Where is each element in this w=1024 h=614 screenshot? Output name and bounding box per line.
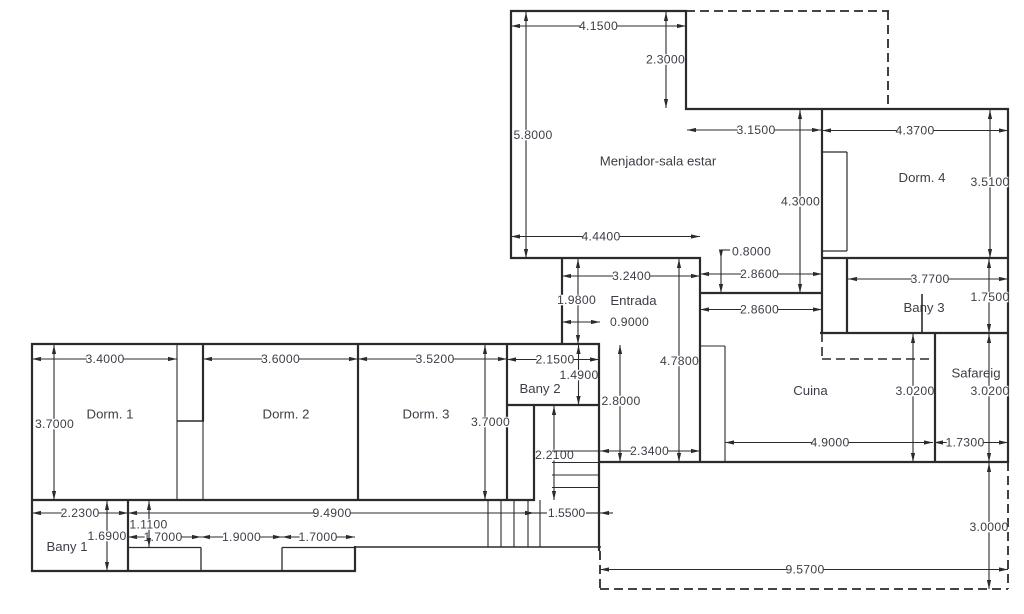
stair riser 3 — [513, 500, 515, 547]
svg-text:3.5200: 3.5200 — [415, 352, 454, 366]
dimension 3.1500 horizontal — [687, 123, 821, 137]
stair tread 3 — [552, 474, 598, 476]
dimension 4.7800 vertical — [660, 259, 699, 462]
wall corridor east — [699, 257, 701, 463]
stair tread 1 — [552, 450, 598, 452]
svg-text:2.2300: 2.2300 — [60, 506, 99, 520]
dimension 4.1500 horizontal — [511, 19, 686, 33]
dimension 1.5500 horizontal — [521, 506, 613, 520]
stair riser 5 — [539, 500, 541, 547]
svg-text:Entrada: Entrada — [610, 293, 657, 308]
dimension 2.3400 horizontal — [600, 444, 700, 458]
wall bany3 west — [846, 257, 848, 334]
terrace top edge west segment — [128, 547, 201, 549]
closet dorm1/dorm2 bottom — [177, 420, 204, 422]
wall dorm4 west — [821, 108, 823, 334]
svg-text:3.2400: 3.2400 — [612, 269, 651, 283]
svg-text:4.9000: 4.9000 — [810, 436, 849, 450]
terrace top edge east segment — [282, 547, 355, 549]
stair tread 2 — [552, 462, 598, 464]
dimension 4.3700 horizontal — [822, 124, 1008, 138]
wall kitchen north — [699, 292, 823, 294]
svg-text:Safareig: Safareig — [951, 366, 1000, 381]
svg-text:3.0200: 3.0200 — [895, 384, 934, 398]
svg-text:0.8000: 0.8000 — [732, 244, 771, 258]
wall bedroom row top — [31, 343, 600, 345]
svg-text:Bany 1: Bany 1 — [46, 539, 87, 554]
svg-text:2.8000: 2.8000 — [601, 394, 640, 408]
svg-text:3.6000: 3.6000 — [261, 352, 300, 366]
dimension 1.7000 horizontal — [128, 530, 201, 544]
door line in bany 3 — [921, 294, 923, 333]
wall dorm4 south — [821, 257, 1009, 259]
svg-text:1.7500: 1.7500 — [970, 290, 1009, 304]
closet dorm4 top — [823, 151, 847, 153]
wall east of stair block — [598, 343, 600, 551]
svg-text:3.7700: 3.7700 — [910, 272, 949, 286]
dashed terrace top — [686, 10, 889, 12]
svg-text:3.7000: 3.7000 — [471, 415, 510, 429]
wall living room top — [510, 10, 687, 12]
terrace pillar west side — [200, 548, 202, 572]
dimension 2.3000 vertical — [646, 12, 685, 108]
dimension 3.7000 vertical — [35, 345, 74, 500]
terrace pillar east side — [281, 548, 283, 572]
wall safareig west — [934, 332, 936, 463]
dimension 9.5700 horizontal — [600, 563, 1008, 577]
wall living room bottom / entrance top — [510, 257, 701, 259]
dimension 1.7300 horizontal — [934, 436, 1008, 450]
wall bottom outer — [31, 570, 356, 572]
svg-text:2.2100: 2.2100 — [535, 448, 574, 462]
dimension 3.0200 vertical — [895, 334, 934, 462]
dimension 0.9000 horizontal — [562, 315, 649, 329]
wall bany3 south / safareig north — [820, 332, 1009, 334]
svg-text:4.3700: 4.3700 — [895, 124, 934, 138]
svg-text:2.3000: 2.3000 — [646, 53, 685, 67]
closet dorm1/dorm2 east lower line — [202, 421, 204, 500]
svg-text:4.3000: 4.3000 — [781, 195, 820, 209]
dimension 3.6000 horizontal — [203, 352, 358, 366]
wall step at terrace east — [354, 546, 356, 572]
dimension 4.9000 horizontal — [725, 436, 933, 450]
svg-text:4.4400: 4.4400 — [581, 230, 620, 244]
dimension 3.5100 vertical — [970, 110, 1009, 258]
dimension 3.7700 horizontal — [848, 272, 1008, 286]
svg-text:3.7000: 3.7000 — [35, 417, 74, 431]
svg-text:1.4900: 1.4900 — [559, 368, 598, 382]
svg-text:Dorm. 1: Dorm. 1 — [87, 407, 134, 422]
dimension 2.2100 vertical — [535, 406, 574, 500]
dimension 3.4000 horizontal — [32, 352, 177, 366]
kitchen niche east — [724, 346, 726, 461]
svg-text:0.9000: 0.9000 — [610, 315, 649, 329]
dashed bottom edge — [600, 588, 1008, 590]
svg-text:3.0200: 3.0200 — [970, 384, 1009, 398]
svg-text:Dorm. 3: Dorm. 3 — [403, 407, 450, 422]
dimension 3.0000 vertical — [969, 463, 1008, 589]
dimension 2.8600 horizontal — [700, 303, 822, 317]
dimension 1.7000 horizontal — [282, 530, 355, 544]
wall bany2 south — [506, 404, 600, 406]
svg-text:3.0000: 3.0000 — [969, 520, 1008, 534]
dimension 2.1500 horizontal — [507, 353, 599, 367]
wall left outer — [31, 343, 33, 572]
svg-text:3.4000: 3.4000 — [85, 352, 124, 366]
dimension 1.1100 vertical — [129, 501, 167, 547]
dimension 1.9800 vertical — [557, 259, 596, 344]
svg-text:Dorm. 4: Dorm. 4 — [899, 170, 946, 185]
svg-text:4.7800: 4.7800 — [660, 354, 699, 368]
kitchen niche top — [701, 345, 725, 347]
svg-text:1.7300: 1.7300 — [945, 436, 984, 450]
svg-text:2.1500: 2.1500 — [535, 353, 574, 367]
svg-text:Bany 2: Bany 2 — [519, 381, 560, 396]
dimension 2.8000 vertical — [601, 345, 640, 462]
dimension 2.8600 horizontal — [700, 267, 822, 281]
stair riser 2 — [500, 500, 502, 547]
svg-text:1.5500: 1.5500 — [548, 506, 585, 520]
dashed kitchen open edge — [822, 358, 935, 360]
svg-text:2.8600: 2.8600 — [740, 303, 779, 317]
wall dorm3 / bany2 west — [506, 343, 508, 501]
dimension 0.8000 vertical — [719, 244, 771, 293]
svg-text:4.1500: 4.1500 — [579, 19, 618, 33]
svg-text:9.5700: 9.5700 — [785, 563, 824, 577]
wall closet dorm1 east upper — [202, 343, 204, 421]
dimension 3.2400 horizontal — [562, 269, 700, 283]
wall right outer — [1007, 108, 1009, 463]
stair riser 4 — [527, 500, 529, 547]
svg-text:1.1100: 1.1100 — [129, 518, 167, 532]
wall south of kitchen block — [599, 461, 1009, 463]
svg-text:1.9800: 1.9800 — [557, 293, 596, 307]
dimension 1.4900 vertical — [559, 345, 598, 405]
dimension 9.4900 horizontal — [128, 506, 534, 520]
wall living room left — [510, 10, 512, 259]
dimension 4.3000 vertical — [781, 110, 820, 293]
svg-text:1.6900: 1.6900 — [87, 529, 126, 543]
svg-text:1.7000: 1.7000 — [298, 530, 337, 544]
closet dorm1/dorm2 west line — [176, 344, 178, 500]
dimension 3.0200 vertical — [970, 334, 1009, 462]
svg-text:Bany 3: Bany 3 — [903, 300, 944, 315]
dimension 1.6900 vertical — [87, 501, 126, 571]
wall entrance west — [561, 257, 563, 345]
svg-text:1.9000: 1.9000 — [222, 530, 261, 544]
dimension 1.7500 vertical — [970, 259, 1009, 333]
stair riser 1 — [487, 500, 489, 547]
svg-text:Dorm. 2: Dorm. 2 — [263, 407, 310, 422]
dimension 3.5200 horizontal — [358, 352, 507, 366]
svg-text:3.1500: 3.1500 — [736, 123, 775, 137]
svg-text:9.4900: 9.4900 — [312, 506, 351, 520]
dashed terrace east — [887, 11, 889, 109]
dimension 5.8000 vertical — [513, 12, 552, 258]
dashed short below bany3 west — [821, 333, 823, 359]
closet dorm4 east — [846, 152, 848, 251]
svg-text:5.8000: 5.8000 — [513, 128, 552, 142]
dimension 4.4400 horizontal — [511, 230, 700, 244]
stair tread 4 — [552, 487, 598, 489]
svg-text:2.3400: 2.3400 — [630, 444, 669, 458]
dimension 2.2300 horizontal — [32, 506, 128, 520]
wall upper-right block top — [685, 108, 1009, 110]
dashed lower-left vertical — [599, 551, 601, 589]
wall bany1 east — [127, 499, 129, 572]
svg-text:Menjador-sala estar: Menjador-sala estar — [600, 154, 717, 169]
dimension 1.9000 horizontal — [201, 530, 282, 544]
wall stairs west — [533, 404, 535, 501]
wall bedroom row bottom — [31, 499, 535, 501]
dimension 3.7000 vertical — [471, 345, 510, 500]
dashed right lower edge — [1007, 462, 1009, 589]
wall dorm2 / dorm3 — [357, 343, 359, 501]
svg-text:2.8600: 2.8600 — [740, 267, 779, 281]
wall step between living room and dashed terrace — [685, 10, 687, 110]
edge below stairs — [355, 546, 601, 548]
svg-text:Cuina: Cuina — [793, 383, 828, 398]
closet dorm4 bottom — [823, 250, 847, 252]
svg-text:3.5100: 3.5100 — [970, 175, 1009, 189]
